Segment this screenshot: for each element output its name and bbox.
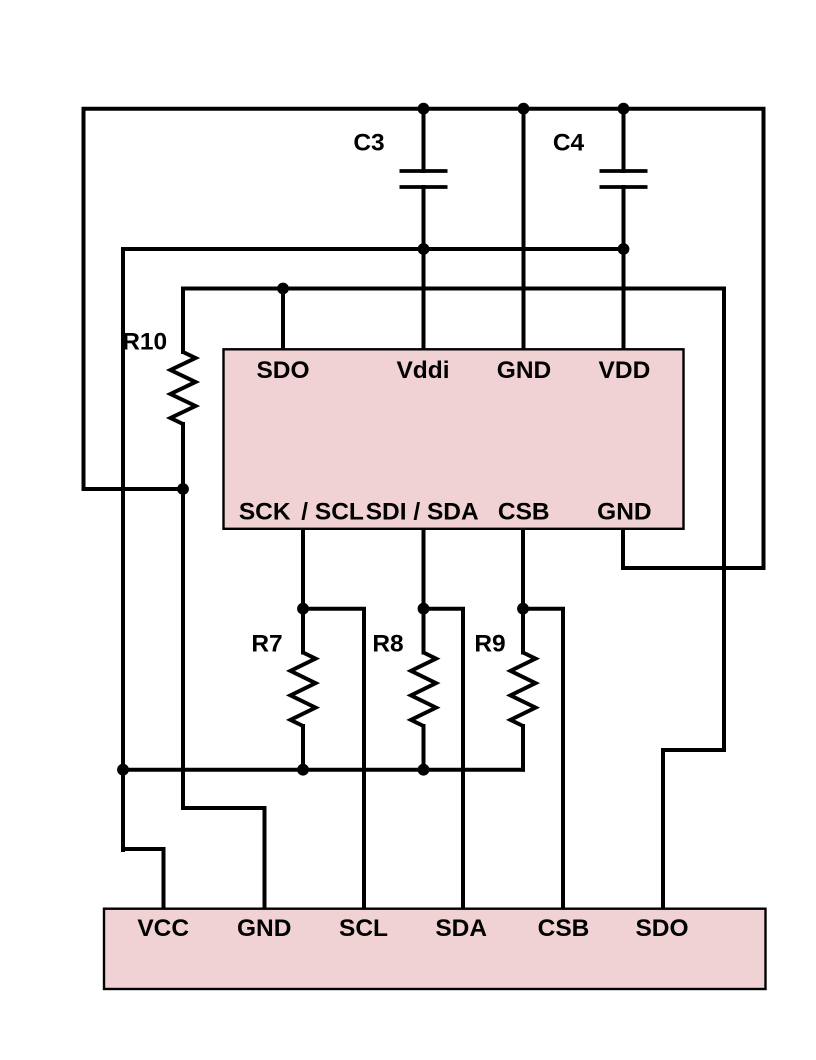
- connector box: [104, 909, 766, 989]
- svg-text:CSB: CSB: [498, 499, 550, 526]
- wire R8 branch to SDA: [424, 609, 464, 908]
- node R8 top: [418, 603, 430, 615]
- node top C4: [618, 103, 630, 115]
- wire SDO stub: [281, 289, 285, 350]
- svg-text:SDO: SDO: [635, 915, 688, 942]
- svg-text:GND: GND: [597, 499, 651, 526]
- node R7 bottom: [297, 764, 309, 776]
- wire GND top vertical: [522, 109, 526, 349]
- wire R8 bottom: [422, 726, 426, 770]
- svg-text:SDO: SDO: [256, 357, 309, 384]
- resistor R10: [171, 352, 196, 424]
- wire R9 bottom: [521, 726, 525, 770]
- svg-text:R9: R9: [474, 631, 505, 658]
- resistor R9: [511, 653, 536, 727]
- svg-text:VDD: VDD: [599, 357, 651, 384]
- svg-text:C4: C4: [553, 130, 585, 157]
- node top GND: [518, 103, 530, 115]
- resistor R8: [411, 653, 436, 727]
- wire top rail: [84, 109, 764, 568]
- capacitor C4: [600, 171, 648, 187]
- capacitor C3: [400, 171, 448, 187]
- wire second rail: [123, 249, 624, 850]
- wire R9 branch to CSB: [523, 609, 563, 908]
- svg-text:R7: R7: [251, 631, 282, 658]
- svg-text:GND: GND: [497, 357, 551, 384]
- wire C4 VDD vertical upper: [622, 109, 626, 171]
- wire R10 top: [181, 289, 185, 353]
- node R8 bottom: [418, 764, 430, 776]
- svg-text:SCL: SCL: [339, 915, 388, 942]
- svg-text:/ SCL: / SCL: [301, 499, 364, 526]
- IC box: [224, 349, 684, 529]
- wire third rail: [183, 289, 724, 909]
- svg-text:Vddi: Vddi: [396, 357, 449, 384]
- svg-text:C3: C3: [353, 130, 384, 157]
- resistor R7: [291, 653, 316, 727]
- node R7 top: [297, 603, 309, 615]
- wire R10 bottom to connector GND: [183, 424, 265, 908]
- wire C4 VDD vertical lower: [622, 187, 626, 349]
- svg-text:R8: R8: [372, 631, 403, 658]
- wire SCK pin down: [301, 529, 305, 653]
- wire C3 Vddi vertical upper: [422, 109, 426, 171]
- wire SDI pin down: [422, 529, 426, 653]
- svg-text:CSB: CSB: [538, 915, 590, 942]
- svg-text:SCK: SCK: [239, 499, 291, 526]
- node rail2 C3: [418, 243, 430, 255]
- svg-text:VCC: VCC: [137, 915, 189, 942]
- node R10 bottom: [177, 483, 189, 495]
- svg-text:SDI / SDA: SDI / SDA: [366, 499, 479, 526]
- node bottom rail left: [117, 764, 129, 776]
- svg-text:R10: R10: [122, 329, 167, 356]
- wire VCC jog: [123, 849, 164, 908]
- node rail2 C4: [618, 243, 630, 255]
- wire CSB pin down: [521, 529, 525, 653]
- node SDO: [277, 283, 289, 295]
- wire C3 Vddi vertical lower: [422, 187, 426, 349]
- wire R7 branch to SCL: [303, 609, 364, 908]
- wire bottom rail: [123, 768, 523, 772]
- node R9 top: [517, 603, 529, 615]
- wire R7 bottom: [301, 726, 305, 770]
- svg-text:GND: GND: [237, 915, 291, 942]
- svg-text:SDA: SDA: [435, 915, 487, 942]
- wire left horizontal to R10 bottom: [84, 487, 184, 491]
- node top C3: [418, 103, 430, 115]
- wire IC GND jog: [623, 529, 764, 568]
